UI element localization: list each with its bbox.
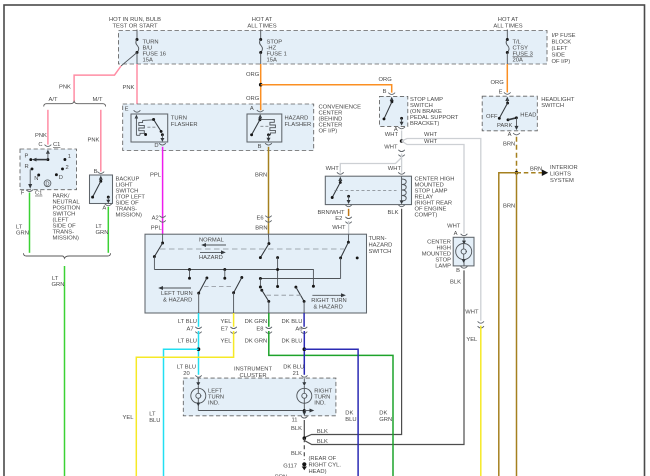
wire cluster common — [198, 409, 314, 416]
svg-text:F: F — [21, 191, 25, 197]
svg-text:BRN: BRN — [503, 204, 515, 210]
svg-text:& HAZARD: & HAZARD — [163, 298, 192, 304]
backup switch internals — [91, 176, 110, 204]
label INSTRUMENT CLUSTER — [234, 367, 272, 380]
instrument cluster box — [183, 378, 336, 416]
svg-text:BRN: BRN — [530, 166, 542, 172]
turn flasher caption — [171, 116, 198, 129]
CHMSL lamp box — [453, 237, 474, 266]
label DK GRN E8 — [245, 319, 268, 333]
wire ORG from fuse 1 — [260, 64, 262, 110]
headlight switch caption — [541, 97, 575, 109]
svg-text:C: C — [38, 142, 42, 148]
node WHT junction — [400, 139, 404, 143]
wire gray diagonal from fuse 16 — [121, 53, 137, 67]
contact dot mid — [276, 256, 279, 259]
label YEL E7 — [221, 319, 233, 333]
headlight switch box — [482, 96, 537, 131]
svg-text:15A: 15A — [143, 58, 153, 64]
wire PNK fuse16 down to turn flasher E — [136, 53, 138, 65]
svg-text:OF I/P): OF I/P) — [319, 129, 338, 135]
svg-text:HOT IN RUN, BULB: HOT IN RUN, BULB — [109, 17, 161, 23]
wire YEL E7 left down — [233, 313, 235, 327]
wire LT GRN below brace — [64, 266, 66, 476]
svg-text:D: D — [45, 182, 49, 188]
svg-text:B: B — [383, 89, 387, 95]
svg-text:LT BLU: LT BLU — [178, 319, 197, 325]
bus L1 taps — [188, 268, 226, 280]
svg-text:BRACKET): BRACKET) — [410, 121, 439, 127]
park/neutral position switch box — [20, 149, 77, 190]
wire PPL turn flasher D to switch — [162, 147, 164, 234]
label HOT AT ALL TIMES (right) — [493, 17, 522, 30]
connector A at hazard flasher — [250, 106, 264, 112]
connector A2 inline on PPL — [151, 216, 166, 232]
wire WHT branch upper to x481 — [402, 139, 481, 321]
CHMSL relay box — [325, 176, 411, 204]
wire BRN junction straight down — [516, 173, 518, 476]
wire BLK dashed to ground — [303, 438, 305, 460]
svg-text:E: E — [499, 90, 503, 96]
svg-text:ALL TIMES: ALL TIMES — [493, 24, 522, 30]
connector B below hazard flasher — [258, 143, 272, 150]
svg-text:PNK: PNK — [88, 138, 100, 144]
PPL entry arm — [153, 234, 164, 269]
wire LT GRN from PNP switch — [29, 193, 31, 253]
backup light switch box — [90, 175, 113, 204]
connector E at headlight switch — [499, 90, 511, 96]
svg-text:& HAZARD: & HAZARD — [314, 304, 343, 310]
svg-text:1: 1 — [68, 154, 71, 160]
svg-text:DK GRN: DK GRN — [245, 319, 268, 325]
fuse F3 T/L CTSY — [506, 38, 533, 64]
svg-text:PPL: PPL — [151, 226, 163, 232]
svg-text:OF I/P): OF I/P) — [552, 59, 571, 65]
connector A below backup switch — [102, 204, 111, 212]
wire PNK M/T branch — [100, 110, 102, 172]
svg-text:A: A — [102, 206, 106, 212]
svg-text:LT: LT — [149, 411, 156, 417]
svg-text:B: B — [94, 169, 98, 175]
svg-text:SYSTEM: SYSTEM — [550, 178, 574, 184]
svg-text:TEST OR START: TEST OR START — [112, 24, 158, 30]
node BRN junction — [515, 171, 519, 175]
wire BLK lamp to ground run — [304, 270, 464, 444]
wire WHT to relay right pin — [401, 154, 403, 173]
svg-text:HAZARD: HAZARD — [369, 243, 393, 249]
brace A/T M/T — [44, 97, 106, 107]
svg-text:I/P FUSE: I/P FUSE — [552, 33, 576, 39]
fuse F16 TURN B/U — [136, 38, 167, 64]
svg-text:DK: DK — [379, 411, 387, 417]
svg-text:11: 11 — [291, 417, 297, 423]
svg-text:PARK: PARK — [497, 123, 512, 129]
connector at relay left pin — [337, 172, 344, 174]
label DK BLU 21 — [283, 364, 304, 377]
svg-text:SIDE: SIDE — [552, 53, 566, 59]
svg-text:MISSION): MISSION) — [116, 213, 142, 219]
svg-text:WHT: WHT — [385, 132, 399, 138]
stop lamp switch internals — [383, 97, 404, 126]
svg-text:PNK: PNK — [59, 85, 71, 91]
wire PNK fuse16 to A/T-M/T brace — [74, 66, 121, 102]
right turn indicator bulb — [297, 378, 312, 415]
svg-text:WHT: WHT — [465, 310, 479, 316]
svg-text:IND.: IND. — [314, 400, 326, 406]
svg-text:BLK: BLK — [317, 429, 328, 435]
svg-text:ORG: ORG — [246, 96, 260, 102]
svg-text:HEAD: HEAD — [520, 113, 536, 119]
node ORG junction — [259, 83, 263, 87]
connector 20 at cluster — [195, 375, 201, 377]
svg-text:E7: E7 — [221, 327, 228, 333]
node DK BLU junction — [303, 347, 307, 351]
svg-text:DK BLU: DK BLU — [282, 339, 303, 345]
svg-text:PPL: PPL — [150, 172, 162, 178]
svg-text:YEL: YEL — [123, 415, 135, 421]
label DK BLU bottom — [345, 411, 356, 424]
svg-text:PNK: PNK — [35, 133, 47, 139]
svg-text:MISSION): MISSION) — [53, 236, 79, 242]
right turn ind caption — [314, 388, 332, 406]
wire LT BLU A7 down — [198, 313, 200, 327]
label HOT IN RUN — [109, 17, 161, 30]
svg-text:B: B — [258, 144, 262, 150]
right rear arm to A6 — [294, 286, 305, 313]
connector A7 inline — [195, 327, 201, 334]
wire stub into fuse 1 — [260, 30, 262, 40]
svg-text:YEL: YEL — [221, 319, 233, 325]
connector D below turn flasher — [154, 143, 165, 149]
svg-text:D: D — [154, 143, 158, 149]
left rear arm to E7 — [232, 276, 243, 313]
svg-text:HOT AT: HOT AT — [252, 17, 273, 23]
svg-text:DK BLU: DK BLU — [282, 319, 303, 325]
svg-text:DK BLU: DK BLU — [283, 364, 304, 370]
svg-text:E6: E6 — [257, 216, 264, 222]
turn-hazard switch caption — [369, 236, 393, 255]
svg-text:ALL TIMES: ALL TIMES — [247, 24, 276, 30]
svg-text:TURN: TURN — [171, 116, 187, 122]
connector E2 inline — [345, 217, 351, 224]
wire BLK relay to ground run — [304, 209, 401, 438]
svg-text:GRN: GRN — [16, 231, 29, 237]
svg-text:DK GRN: DK GRN — [245, 339, 268, 345]
svg-text:SWITCH: SWITCH — [369, 249, 392, 255]
wire DK BLU A6 down — [303, 313, 305, 327]
label LT BLU 20 — [177, 364, 196, 377]
linkage dashed across switch — [160, 248, 344, 250]
label LEFT TURN & HAZARD with arrow — [158, 286, 192, 304]
label LT BLU bottom — [149, 411, 160, 424]
connector E8 inline — [266, 327, 272, 334]
svg-text:BRN: BRN — [255, 226, 267, 232]
connector A6 inline — [301, 327, 307, 334]
svg-text:GRN: GRN — [96, 230, 109, 236]
wire ORG from fuse 3 to headlight switch — [506, 64, 508, 92]
wire BRN junction left and down — [499, 173, 517, 476]
left turn ind caption — [208, 388, 224, 406]
connector 11 below cluster — [301, 416, 307, 418]
connector inline WHT/YEL — [478, 321, 484, 328]
svg-text:20A: 20A — [513, 58, 523, 64]
wire ORG junction to stop lamp switch B — [261, 85, 392, 93]
wire BRN hazard flasher B to switch — [268, 147, 270, 234]
svg-text:E: E — [125, 107, 129, 113]
node LT BLU junction — [197, 347, 201, 351]
svg-text:BLK: BLK — [450, 279, 461, 285]
connector below relay BLK — [398, 205, 404, 207]
svg-text:E2: E2 — [335, 216, 342, 222]
wire WHT stop lamp A down — [401, 131, 403, 142]
backup switch caption — [116, 177, 146, 219]
svg-text:A: A — [250, 106, 254, 112]
svg-text:G117: G117 — [283, 463, 297, 469]
bus L1 — [154, 270, 313, 286]
svg-text:2: 2 — [66, 165, 69, 171]
svg-text:N: N — [34, 176, 38, 182]
wire DK GRN E8 right down — [268, 313, 270, 327]
svg-text:NORMAL: NORMAL — [199, 238, 225, 244]
PNP switch internals — [25, 150, 72, 189]
svg-text:LIGHTS: LIGHTS — [550, 172, 571, 178]
I/P fuse block box — [119, 31, 548, 65]
svg-text:WHT: WHT — [388, 166, 402, 172]
svg-text:RIGHT CYL.: RIGHT CYL. — [309, 462, 342, 468]
svg-text:C1: C1 — [35, 191, 42, 197]
svg-text:HEAD): HEAD) — [309, 469, 327, 475]
svg-text:BLK: BLK — [291, 451, 302, 457]
turn-hazard switch box — [145, 234, 367, 313]
linkage dashed left arms — [204, 285, 234, 287]
svg-text:A2: A2 — [152, 216, 159, 222]
brace merge LT GRN — [24, 253, 111, 258]
svg-text:WHT: WHT — [326, 166, 340, 172]
wire stub into fuse 16 — [136, 30, 138, 40]
svg-text:A/T: A/T — [48, 97, 57, 103]
CHMSL lamp bulb — [456, 238, 472, 266]
hazard flasher U-HF box — [247, 114, 282, 142]
svg-text:R: R — [25, 164, 29, 170]
label DK GRN bottom — [379, 411, 392, 424]
label LT GRN — [52, 276, 65, 288]
CHMSL lamp caption — [422, 240, 451, 270]
wire BLK cluster to junction — [303, 420, 305, 438]
svg-text:E8: E8 — [256, 327, 263, 333]
svg-text:INSTRUMENT: INSTRUMENT — [234, 367, 272, 373]
label REAR OF RIGHT CYL HEAD — [309, 456, 342, 475]
connector B below CHMSL lamp — [456, 266, 467, 274]
svg-text:GRN: GRN — [379, 417, 392, 423]
node BLK junction — [303, 436, 307, 440]
svg-text:BLK: BLK — [291, 426, 302, 432]
svg-text:A: A — [508, 132, 512, 138]
stop lamp switch box — [380, 96, 408, 126]
svg-text:BLOCK: BLOCK — [552, 40, 572, 46]
svg-text:PNK: PNK — [123, 85, 135, 91]
svg-text:DK: DK — [345, 411, 353, 417]
svg-text:HAZARD: HAZARD — [199, 255, 223, 261]
svg-text:BLK: BLK — [388, 210, 399, 216]
svg-text:TURN-: TURN- — [369, 236, 387, 242]
svg-text:(LEFT: (LEFT — [552, 46, 569, 52]
svg-text:WHT: WHT — [332, 225, 346, 231]
convenience center caption — [319, 105, 362, 135]
svg-text:B: B — [456, 268, 460, 274]
headlight switch internals — [486, 97, 536, 131]
svg-text:ORG: ORG — [491, 80, 505, 86]
CHMSL relay internals — [331, 177, 406, 205]
svg-text:LT: LT — [52, 276, 59, 282]
connector E7 inline — [230, 327, 236, 334]
I/P fuse block caption — [552, 33, 576, 65]
connector B at backup switch — [94, 169, 105, 175]
label DK BLU A6 — [282, 319, 303, 333]
label LT GRN — [96, 224, 109, 236]
wire WHT branch to relay left pin — [340, 158, 401, 173]
connector E at turn flasher — [125, 107, 141, 113]
turn flasher U-TF box — [131, 114, 168, 142]
svg-text:D: D — [59, 175, 63, 181]
svg-text:OFF: OFF — [486, 114, 498, 120]
CHMSL relay caption — [415, 177, 455, 219]
wire PNK A/T branch — [47, 110, 49, 145]
turn flasher internals — [135, 115, 165, 142]
svg-text:(REAR OF: (REAR OF — [309, 456, 337, 462]
svg-text:RIGHT TURN: RIGHT TURN — [311, 298, 347, 304]
connector A below stop lamp switch — [394, 127, 405, 133]
WHT entry arm — [339, 234, 350, 278]
svg-text:INTERIOR: INTERIOR — [550, 165, 578, 171]
right turn arm to E8 — [260, 289, 270, 313]
BRN entry arm — [259, 234, 270, 259]
hazard flasher internals — [250, 114, 275, 141]
ground G117 — [283, 462, 307, 470]
connector B at stop lamp switch — [383, 89, 395, 95]
svg-text:BRN: BRN — [255, 172, 267, 178]
svg-text:A7: A7 — [187, 327, 194, 333]
wire BRN dashed to interior lights arrow — [517, 172, 543, 174]
PNP switch caption — [53, 194, 81, 242]
center contact column — [276, 258, 279, 288]
label HOT AT ALL TIMES (center) — [247, 17, 276, 30]
svg-text:LT BLU: LT BLU — [178, 339, 197, 345]
svg-text:M/T: M/T — [93, 97, 103, 103]
wire LT GRN from backup switch — [107, 207, 109, 253]
connector A below headlight switch — [508, 132, 520, 138]
left turn arm to A7 — [197, 276, 208, 313]
wire LT BLU branch left down — [164, 349, 199, 476]
left turn indicator bulb — [191, 378, 206, 410]
bus L2 — [260, 278, 340, 280]
svg-text:GRN: GRN — [52, 282, 65, 288]
convenience center box — [123, 104, 314, 151]
svg-text:COMPT): COMPT) — [415, 213, 438, 219]
svg-text:15A: 15A — [267, 58, 277, 64]
wire DK BLU branch right down — [304, 349, 358, 476]
connector F/C1 below PNP switch — [21, 190, 43, 197]
label RIGHT TURN & HAZARD with arrow — [311, 293, 347, 310]
svg-text:P: P — [25, 154, 29, 160]
wire BRN dashed headlight A down — [516, 137, 518, 173]
connector at relay right pin — [398, 172, 405, 174]
wire stub into fuse 3 — [506, 30, 508, 40]
svg-text:BLU: BLU — [149, 418, 160, 424]
label NORMAL with arrow — [199, 238, 226, 248]
wire BRN/WHT short segment — [348, 209, 350, 216]
fuse F1 STOP-HZ — [259, 38, 287, 64]
stop lamp switch caption — [410, 97, 459, 127]
label HAZARD with arrow — [199, 250, 226, 260]
contact dot right — [356, 256, 359, 259]
svg-text:BLK: BLK — [317, 439, 328, 445]
label INTERIOR LIGHTS SYSTEM — [550, 165, 578, 184]
svg-text:C1: C1 — [53, 142, 60, 148]
connector inline on WHT — [398, 150, 404, 157]
svg-text:ORG: ORG — [246, 72, 260, 78]
svg-text:HAZARD: HAZARD — [285, 116, 309, 122]
connector below relay BRN/WHT — [345, 205, 351, 207]
svg-text:SWITCH: SWITCH — [541, 103, 564, 109]
connector E6 inline on BRN — [255, 216, 271, 232]
svg-text:LEFT TURN: LEFT TURN — [161, 291, 193, 297]
connector A at CHMSL lamp — [454, 231, 468, 237]
svg-text:LT BLU: LT BLU — [177, 364, 196, 370]
svg-text:WHT: WHT — [384, 145, 398, 151]
svg-text:IND.: IND. — [208, 400, 220, 406]
wire WHT E2 to turn-hazard switch — [348, 221, 350, 234]
linkage dashed right arms — [267, 294, 302, 296]
svg-text:LAMP: LAMP — [435, 264, 451, 270]
label LT BLU A7 — [178, 319, 197, 333]
svg-text:ORG: ORG — [379, 77, 393, 83]
svg-text:20: 20 — [183, 371, 189, 377]
label LT GRN — [16, 225, 29, 237]
hazard flasher caption — [285, 116, 312, 129]
label BRN/WHT E2 — [317, 210, 345, 222]
svg-text:WHT: WHT — [424, 139, 438, 145]
svg-text:WHT: WHT — [424, 132, 438, 138]
svg-text:BRN: BRN — [503, 142, 515, 148]
wire WHT branch lower to lamp A — [402, 141, 464, 234]
svg-text:HOT AT: HOT AT — [498, 17, 519, 23]
svg-text:A: A — [454, 231, 458, 237]
svg-text:BRN/WHT: BRN/WHT — [317, 210, 345, 216]
wire YEL to bottom — [480, 326, 482, 476]
svg-text:21: 21 — [293, 371, 299, 377]
svg-text:YEL: YEL — [221, 339, 233, 345]
connector C/C1 at PNP switch — [38, 142, 60, 148]
svg-text:FLASHER: FLASHER — [171, 122, 198, 128]
connector 21 at cluster — [301, 375, 307, 377]
svg-text:YEL: YEL — [466, 337, 478, 343]
svg-text:BLU: BLU — [345, 417, 356, 423]
svg-text:WHT: WHT — [447, 223, 461, 229]
svg-text:FLASHER: FLASHER — [285, 122, 312, 128]
